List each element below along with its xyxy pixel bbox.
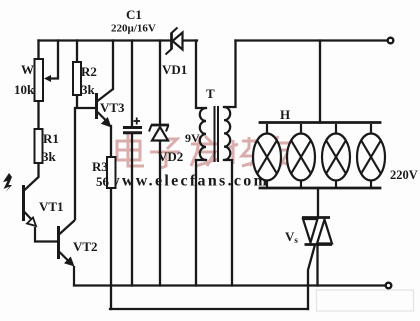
- diode VD2: [149, 125, 169, 132]
- wire: transformer primary top lead: [196, 41, 206, 109]
- wire: top-left rail: [39, 39, 198, 41]
- VT2 emitter arrowhead: [64, 257, 75, 267]
- svg-text:220µ/16V: 220µ/16V: [111, 23, 156, 35]
- resistor R3 body: [107, 157, 116, 188]
- wire: R1 to VT1 collector: [25, 163, 39, 190]
- watermark chinese char 3: [191, 136, 219, 166]
- transformer T primary winding: [200, 108, 206, 160]
- svg-text:R1: R1: [43, 131, 59, 146]
- svg-text:3k: 3k: [42, 149, 57, 164]
- svg-text:10k: 10k: [14, 82, 35, 97]
- transformer T core: [215, 106, 219, 162]
- wire: lamp bus to triac: [317, 188, 319, 217]
- faint table border bottom right: [317, 290, 414, 311]
- svg-text:R3: R3: [92, 159, 108, 174]
- wire: transformer secondary top lead: [224, 41, 236, 108]
- wire: VT3 emitter to R3: [110, 126, 112, 157]
- svg-text:56: 56: [96, 174, 110, 189]
- lamp H3: [322, 124, 350, 187]
- svg-text:H: H: [280, 107, 290, 122]
- wire: R3 to gate rail: [110, 188, 112, 309]
- potentiometer W body: [35, 59, 44, 101]
- lamp H1: [253, 124, 281, 187]
- wire: triac MT2 to bottom rail: [316, 246, 318, 286]
- watermark chinese char 1: [117, 134, 144, 166]
- wire: VT2 collector riser: [74, 108, 76, 219]
- wire: R2 drop from top rail: [76, 41, 78, 63]
- svg-text:T: T: [206, 86, 215, 101]
- wire: R2 / VT2 collector to VT3 base: [77, 95, 96, 108]
- svg-text:9V: 9V: [185, 131, 200, 145]
- svg-text:W: W: [21, 62, 34, 77]
- terminal bottom right: [386, 283, 392, 289]
- wire: VD2 drop from top rail: [159, 41, 161, 124]
- wire: top-right rail: [236, 39, 388, 41]
- wire: VT3 collector riser: [112, 41, 114, 90]
- terminal top right: [388, 38, 394, 44]
- light arrow into VT1: [3, 173, 12, 192]
- wire: triac gate lead: [308, 247, 315, 310]
- svg-text:VD2: VD2: [158, 149, 183, 164]
- watermark chinese char 4: [228, 137, 256, 166]
- phototransistor VT1: [24, 185, 33, 221]
- lamp H4: [357, 124, 385, 187]
- triac Vs: [302, 218, 332, 245]
- lamp H2: [287, 124, 315, 187]
- transistor VT3: [97, 89, 114, 122]
- svg-text:C1: C1: [126, 7, 142, 22]
- wire: C1 to bottom rail: [131, 134, 133, 286]
- wire: lamp feed drop: [319, 41, 321, 123]
- diode VD1: [166, 28, 178, 55]
- wire: W to R1: [37, 101, 39, 129]
- svg-text:R2: R2: [81, 64, 97, 79]
- wire: lamp bottom bus: [260, 187, 380, 190]
- transistor VT2: [59, 220, 76, 263]
- wire: transformer primary bottom lead: [196, 160, 206, 286]
- wire: W wiper feed from top rail: [48, 41, 59, 79]
- wire: lamp top bus: [260, 121, 380, 124]
- wire: gate rail (lower): [110, 308, 308, 310]
- capacitor C1 plus sign: [134, 118, 141, 125]
- watermark chinese char 2: [150, 139, 180, 168]
- wire: transformer secondary bottom lead: [224, 160, 232, 286]
- wire: VD2 to bottom rail: [159, 141, 161, 286]
- potentiometer W wiper arrow: [44, 75, 51, 82]
- wire: VT2 emitter to bottom rail: [73, 266, 75, 286]
- VT3 emitter arrowhead: [101, 117, 112, 128]
- watermark chinese char 5: [264, 136, 293, 166]
- svg-text:VT3: VT3: [100, 100, 125, 115]
- svg-text:VT1: VT1: [39, 199, 64, 214]
- svg-text:VD1: VD1: [162, 62, 187, 77]
- resistor R1 body: [35, 129, 43, 163]
- svg-text:3k: 3k: [81, 82, 96, 97]
- wire: drop to potentiometer W: [37, 41, 39, 60]
- capacitor C1 plates: [123, 128, 142, 133]
- wire: C1 drop from top rail: [131, 41, 133, 127]
- wire: VT1 emitter to VT2 base: [35, 227, 58, 242]
- transformer T secondary winding: [224, 107, 230, 160]
- VT1 emitter hollow arrowhead: [27, 218, 36, 227]
- resistor R2 body: [73, 62, 81, 95]
- svg-text:220V: 220V: [390, 168, 418, 182]
- wire: bottom rail: [74, 284, 386, 286]
- svg-text:Vs: Vs: [285, 229, 298, 245]
- svg-text:VT2: VT2: [73, 239, 98, 254]
